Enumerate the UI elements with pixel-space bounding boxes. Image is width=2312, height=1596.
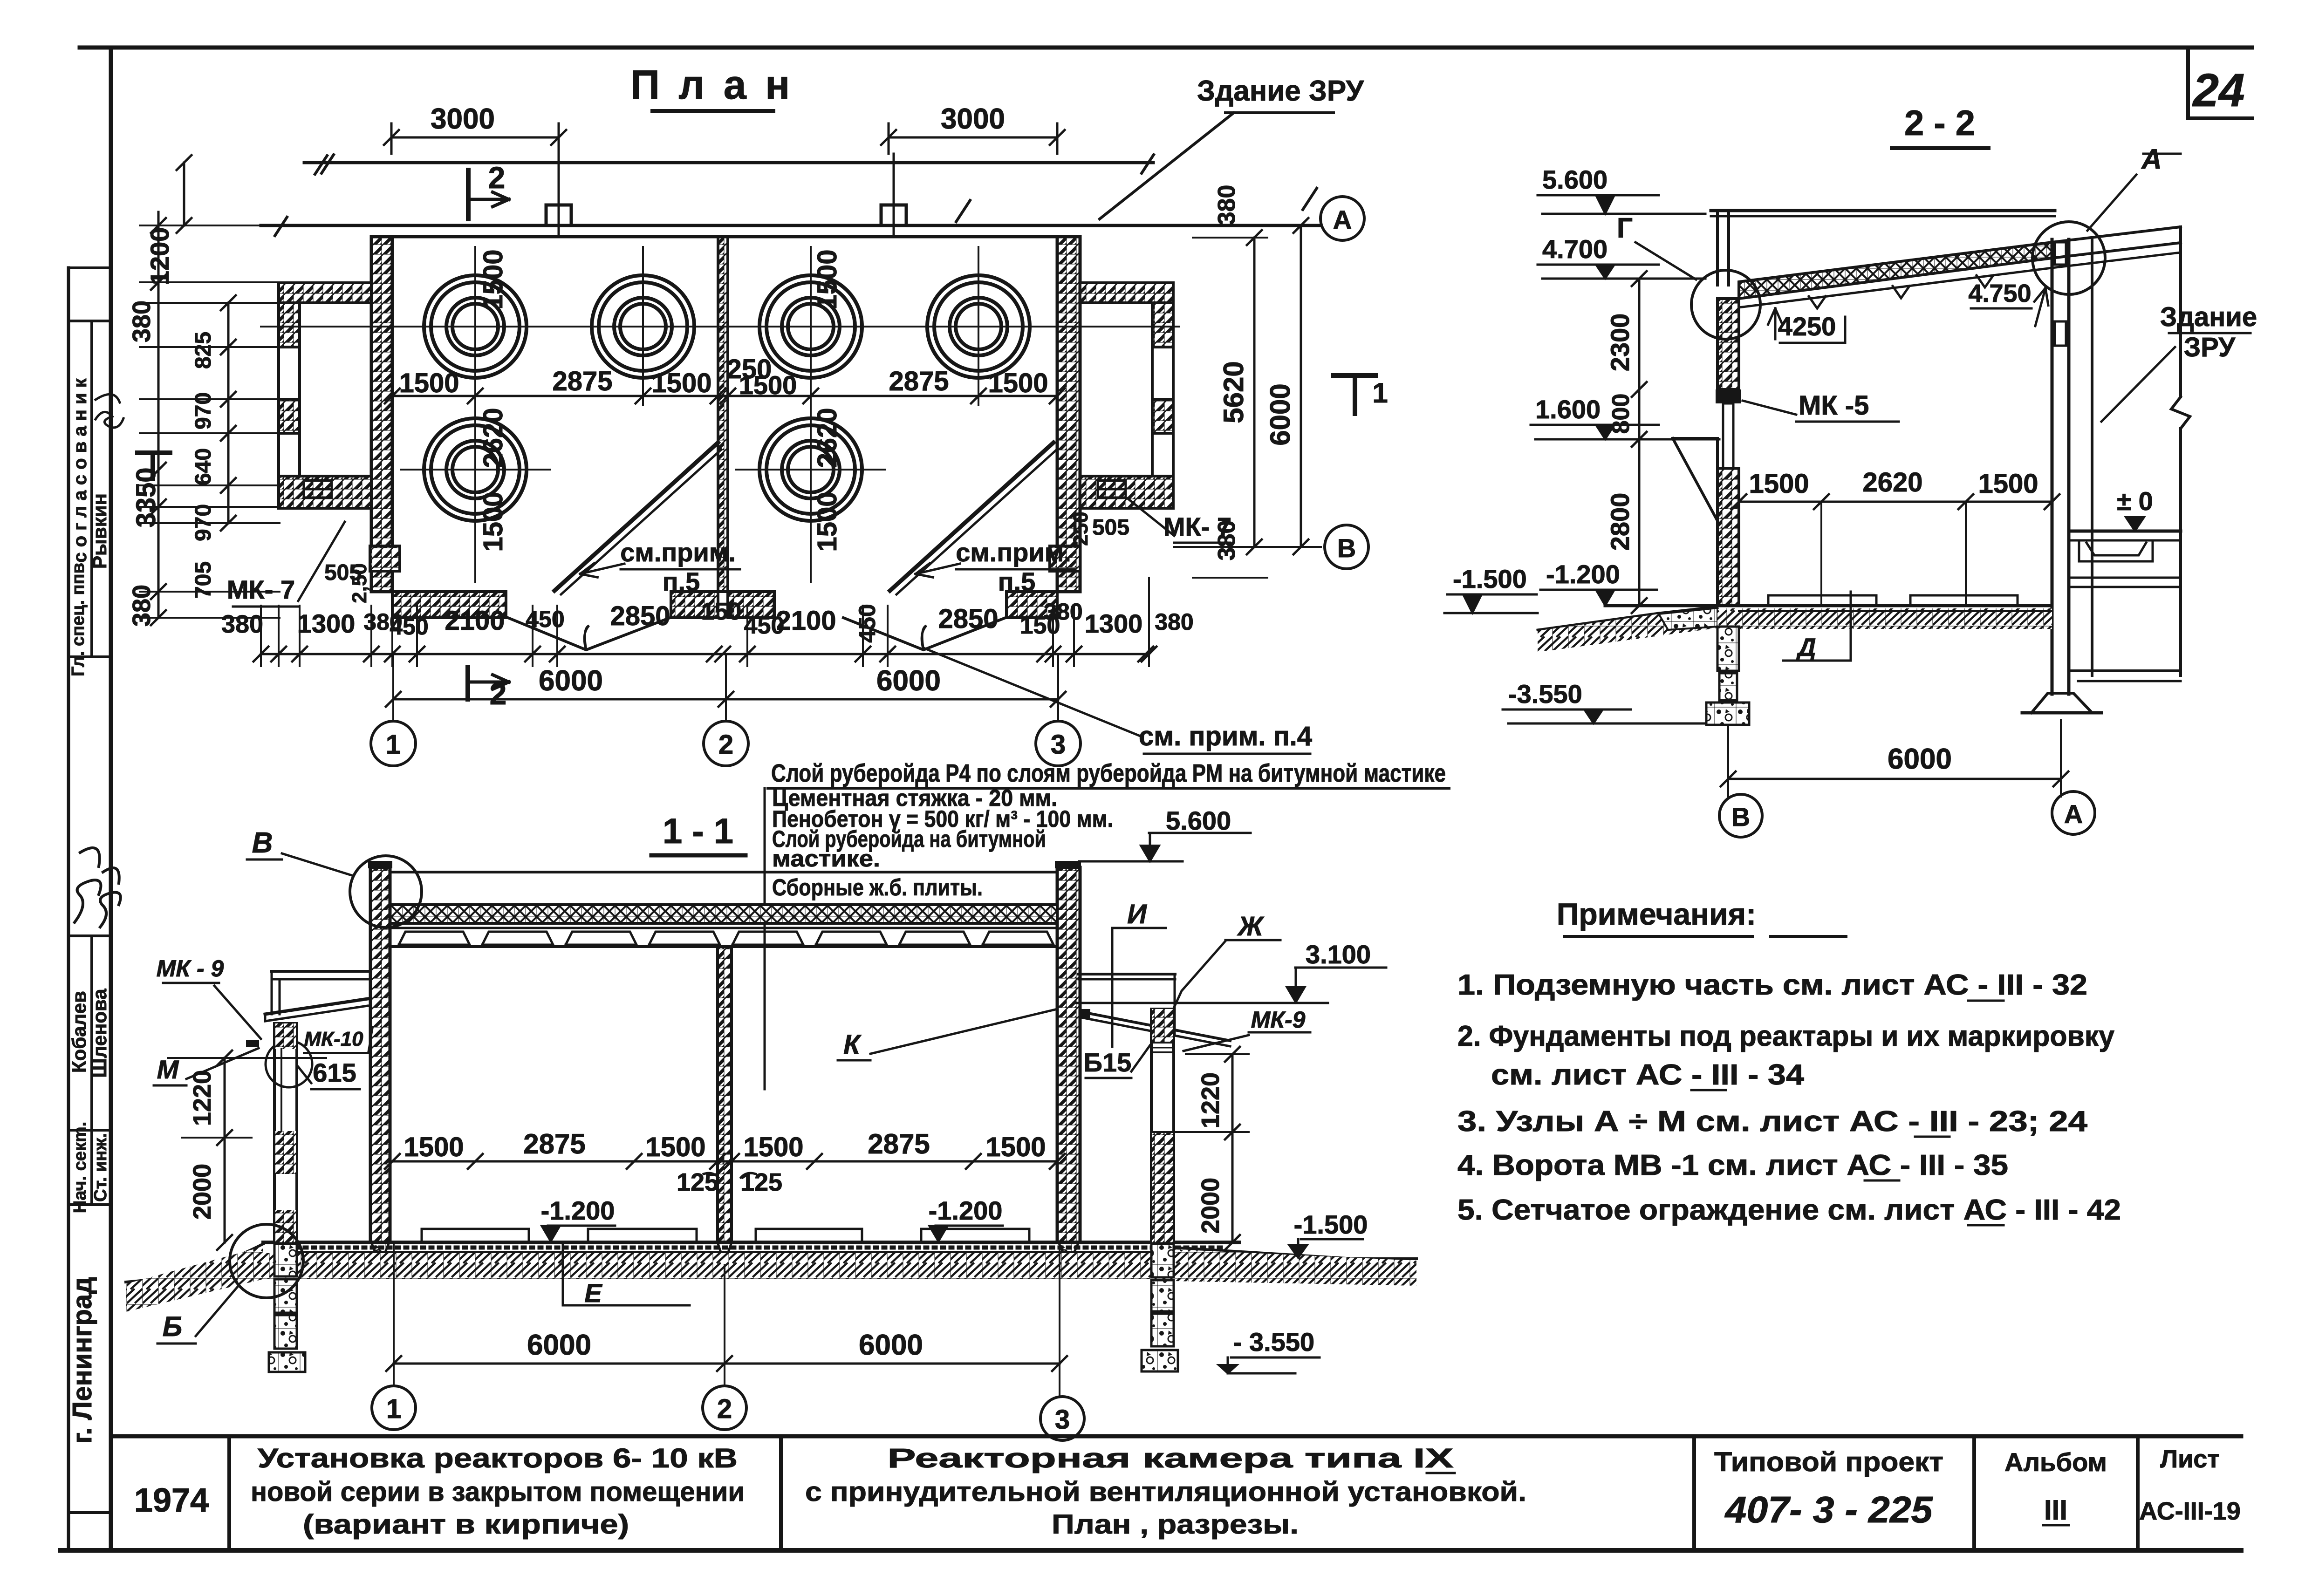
plan reactor circles row1 col3 — [759, 275, 862, 378]
s11 right dim stack 1220 2000 — [1231, 1054, 1234, 1242]
plan left vent room top wall — [279, 283, 371, 303]
svg-text:-1.200: -1.200 — [929, 1196, 1003, 1225]
s11 right column tip — [1059, 1242, 1079, 1265]
s22 wall foundation speckled — [1717, 627, 1739, 671]
signature strip mid divider lower — [90, 936, 93, 1205]
plan reactor circles row1 col1 — [424, 275, 527, 378]
s22 grid bubble B — [1719, 794, 1762, 837]
s22 right column lines — [2051, 239, 2054, 694]
svg-text:1500: 1500 — [812, 249, 842, 309]
svg-text:407- 3 - 225: 407- 3 - 225 — [1724, 1489, 1933, 1530]
s11 grade line left — [126, 1244, 263, 1282]
s11 left canopy sloped slab — [265, 999, 368, 1014]
svg-text:МК -5: МК -5 — [1799, 390, 1869, 421]
svg-text:2620: 2620 — [478, 408, 508, 468]
svg-text:В: В — [1731, 802, 1750, 832]
plan axis bubble A — [1320, 197, 1364, 240]
svg-text:2620: 2620 — [1862, 467, 1922, 498]
s11 right canopy column — [1151, 1009, 1174, 1242]
svg-text:МК - 9: МК - 9 — [157, 955, 224, 982]
svg-text:-3.550: -3.550 — [1508, 679, 1582, 709]
svg-text:5620: 5620 — [1218, 361, 1249, 423]
svg-text:615: 615 — [313, 1058, 356, 1087]
s22 left wall lower hatched — [1717, 468, 1739, 606]
roof text bracket vertical line — [764, 788, 766, 1089]
plan grid bubble 2 — [704, 721, 748, 766]
svg-text:см.прим.: см.прим. — [956, 538, 1071, 567]
svg-text:6000: 6000 — [859, 1329, 923, 1361]
svg-text:План , разрезы.: План , разрезы. — [1052, 1509, 1299, 1540]
svg-text:380: 380 — [221, 610, 263, 638]
s11 ground hatch far left — [126, 1247, 263, 1312]
svg-text:А: А — [2141, 143, 2162, 175]
svg-text:4. Ворота МВ -1 см. лист АС: 4. Ворота МВ -1 см. лист АС - III - 35 — [1457, 1149, 2008, 1181]
s11 left parapet cap — [368, 861, 392, 868]
svg-text:2: 2 — [488, 160, 506, 195]
plan leader Zdanie ZRU — [1100, 113, 1234, 219]
svg-text:п.5: п.5 — [663, 567, 700, 596]
svg-text:1: 1 — [1372, 377, 1388, 409]
s11 right canopy sloped slab MK-9 — [1081, 1012, 1230, 1041]
s11 left dim stack 1220 2000 — [224, 1058, 226, 1242]
s22 ground hatch left of wall — [1538, 607, 1717, 652]
plan reactor circles row2 col3 — [759, 418, 862, 521]
plan right vent room right wall segments — [1152, 303, 1173, 347]
plan vent axis line 2 — [893, 154, 895, 237]
s22 ground hatch under floor — [1717, 608, 2052, 629]
plan right dim 6000 — [1300, 225, 1302, 547]
s11 rear parapet top line — [390, 871, 1057, 873]
s22 left wall upper hatched — [1717, 299, 1739, 389]
svg-text:2000: 2000 — [1197, 1178, 1224, 1234]
svg-text:2,50: 2,50 — [348, 563, 371, 603]
plan gate 1 leaves — [508, 618, 670, 650]
plan bottom wall segment B — [671, 592, 718, 618]
s11 floor line — [263, 1241, 1239, 1244]
svg-text:МК-10: МК-10 — [304, 1028, 363, 1050]
svg-text:Установка реакторов 6- 10 кВ: Установка реакторов 6- 10 кВ — [258, 1443, 738, 1473]
s11 ground hatch under floor — [261, 1253, 1239, 1279]
s22 roof v-notches — [1809, 296, 1826, 308]
plan ZRU wall break marks — [315, 155, 334, 174]
s11 middle column hatched — [718, 947, 732, 1242]
svg-text:505: 505 — [1092, 515, 1129, 540]
plan right section T1 mark — [1334, 373, 1375, 378]
svg-text:Сборные ж.б. плиты.: Сборные ж.б. плиты. — [772, 874, 983, 900]
svg-text:2: 2 — [490, 676, 507, 711]
svg-text:825: 825 — [191, 332, 216, 369]
s11 roof slab line — [390, 927, 1057, 929]
svg-text:1500: 1500 — [404, 1132, 464, 1162]
plan reactor circles row1 col2 — [592, 275, 694, 378]
s11 right canopy beam lines — [1079, 973, 1175, 975]
svg-text:Здание ЗРУ: Здание ЗРУ — [1197, 75, 1364, 107]
plan grid bubble 3 — [1036, 721, 1081, 766]
svg-text:И: И — [1127, 899, 1147, 929]
plan right outer wall hatched — [1057, 237, 1080, 592]
plan centerline horizontal row1 — [261, 326, 1179, 327]
svg-text:3: 3 — [1051, 730, 1066, 760]
svg-text:970: 970 — [191, 504, 216, 541]
svg-text:ЗРУ: ЗРУ — [2184, 332, 2236, 362]
svg-text:1500: 1500 — [988, 368, 1048, 398]
svg-text:1500: 1500 — [478, 249, 508, 309]
plan vent axis line 1 — [558, 154, 560, 237]
s11 right canopy column foundation — [1151, 1244, 1174, 1277]
s11 grade line right — [1174, 1248, 1416, 1259]
svg-text:380: 380 — [1044, 599, 1082, 625]
svg-text:П л а н: П л а н — [630, 61, 794, 108]
plan bottom wall segment A — [392, 592, 506, 618]
svg-text:Д: Д — [1796, 634, 1816, 662]
s22 bottom dim 6000 — [1728, 778, 2061, 780]
plan bottom wall segment C — [728, 592, 774, 618]
s11 right canopy footing pad — [1142, 1350, 1178, 1371]
svg-text:380: 380 — [1213, 520, 1240, 561]
svg-text:5.600: 5.600 — [1166, 806, 1231, 835]
svg-text:1500: 1500 — [739, 370, 797, 400]
s11 left column tip — [371, 1242, 389, 1265]
svg-text:1220: 1220 — [188, 1070, 216, 1126]
svg-text:1500: 1500 — [645, 1132, 705, 1162]
s22 floor line — [1605, 604, 2052, 607]
svg-text:970: 970 — [191, 392, 216, 430]
svg-text:-1.500: -1.500 — [1294, 1210, 1368, 1239]
plan fence diagonal chamber2 — [890, 443, 1053, 591]
sheet bottom frame line — [60, 1548, 2241, 1553]
svg-text:1 - 1: 1 - 1 — [663, 812, 733, 851]
svg-text:800: 800 — [1607, 394, 1635, 434]
svg-text:250: 250 — [1069, 512, 1092, 546]
plan grid dim 6000 line — [393, 698, 1058, 701]
s22 left vertical dim stack — [1638, 279, 1641, 606]
plan section mark 2 top — [466, 170, 471, 219]
svg-text:± 0: ± 0 — [2117, 486, 2153, 516]
svg-text:1500: 1500 — [985, 1132, 1046, 1162]
svg-text:Ст. инж.: Ст. инж. — [91, 1133, 110, 1202]
svg-text:МК- 7: МК- 7 — [227, 575, 295, 604]
plan vent notch 2 — [881, 205, 906, 225]
plan reactor circles row2 col1 — [424, 418, 527, 521]
svg-text:1500: 1500 — [1749, 469, 1809, 499]
signature strip left border — [67, 268, 70, 1550]
plan bottom dim row line — [261, 653, 1149, 655]
sheet top frame line — [80, 46, 2252, 50]
plan left dim stack lines — [157, 212, 160, 618]
svg-text:5.600: 5.600 — [1542, 165, 1607, 194]
plan bottom extension lines — [260, 606, 262, 666]
svg-text:III: III — [2044, 1494, 2067, 1526]
svg-text:2850: 2850 — [610, 601, 670, 631]
plan left extension lines — [140, 225, 280, 226]
svg-text:Гл. спец. ппв: Гл. спец. ппв — [68, 563, 88, 676]
svg-text:новой серии в закрытом помещ: новой серии в закрытом помещении — [251, 1477, 745, 1507]
s11 grid extension lines — [393, 1244, 395, 1386]
s22 right column joint marks — [2055, 242, 2066, 265]
svg-text:1: 1 — [386, 730, 401, 760]
plan chamber dim row texts — [392, 395, 1057, 397]
plan right vent room bottom wall — [1080, 476, 1173, 508]
svg-text:2850: 2850 — [938, 604, 998, 634]
svg-text:2: 2 — [717, 1394, 732, 1424]
svg-text:2. Фундаменты под реактары: 2. Фундаменты под реактары и их маркиров… — [1457, 1020, 2114, 1052]
plan dim 3000 first — [391, 136, 559, 139]
svg-text:5. Сетчатое ограждение см.: 5. Сетчатое ограждение см. лист АС - III… — [1457, 1194, 2121, 1226]
svg-text:1974: 1974 — [134, 1482, 209, 1519]
svg-text:3350: 3350 — [131, 467, 161, 527]
svg-text:1220: 1220 — [1197, 1072, 1224, 1128]
s11 MK-9 plate right — [1079, 1009, 1090, 1018]
svg-text:3000: 3000 — [431, 103, 495, 135]
svg-text:с о г л а с о в а н и к: с о г л а с о в а н и к — [70, 378, 90, 563]
s11 V detail circle top left — [350, 856, 422, 928]
svg-text:2875: 2875 — [523, 1128, 585, 1159]
strip signature squiggle 2 — [75, 848, 101, 922]
s11 interior dim row — [392, 1160, 1057, 1163]
svg-text:Кобалев: Кобалев — [68, 991, 90, 1073]
plan centerline vertical col1 — [474, 247, 476, 582]
plan dim 1200 vertical line — [183, 163, 185, 225]
svg-text:2875: 2875 — [552, 366, 612, 396]
svg-text:1500: 1500 — [651, 368, 711, 398]
svg-text:МК-9: МК-9 — [1251, 1007, 1306, 1033]
svg-text:3. Узлы А ÷ М см. л: 3. Узлы А ÷ М см. лист АС - III - 23; 24 — [1457, 1105, 2088, 1138]
svg-text:-1.200: -1.200 — [1546, 559, 1620, 589]
svg-text:1.600: 1.600 — [1535, 395, 1601, 424]
s22 detail circle A top — [2032, 222, 2105, 294]
title block verticals — [227, 1436, 231, 1550]
svg-text:Типовой проект: Типовой проект — [1714, 1447, 1943, 1477]
svg-text:1500: 1500 — [399, 368, 459, 398]
svg-text:Г: Г — [1617, 212, 1633, 244]
plan centerline vertical col4 — [978, 247, 979, 405]
svg-text:2000: 2000 — [188, 1164, 216, 1220]
svg-text:1500: 1500 — [812, 491, 842, 552]
svg-text:Б: Б — [163, 1311, 182, 1342]
svg-text:1500: 1500 — [478, 491, 508, 552]
svg-text:4.700: 4.700 — [1542, 234, 1607, 264]
s22 ZRU wall line — [2091, 239, 2093, 675]
svg-text:г. Ленинград: г. Ленинград — [67, 1277, 97, 1444]
svg-text:мастике.: мастике. — [772, 846, 880, 872]
s22 MK-5 embed plate — [1716, 389, 1741, 403]
svg-text:2100: 2100 — [776, 606, 836, 636]
s22 footing pad speckled — [1706, 703, 1749, 725]
svg-text:1: 1 — [386, 1394, 401, 1424]
sheet number box 24 — [2186, 48, 2190, 118]
svg-text:с принудительной вентиляцион: с принудительной вентиляционной установк… — [805, 1477, 1526, 1507]
strip signature squiggle 3 — [100, 868, 121, 927]
plan vent notch 1 — [546, 205, 571, 225]
svg-text:1500: 1500 — [743, 1132, 803, 1162]
svg-text:1200: 1200 — [145, 227, 174, 286]
svg-text:2875: 2875 — [868, 1128, 930, 1159]
svg-text:2620: 2620 — [812, 408, 842, 468]
svg-text:380: 380 — [1155, 609, 1193, 635]
plan left vent room bottom wall — [279, 476, 371, 508]
svg-text:Б15: Б15 — [1084, 1048, 1132, 1077]
plan centerline horizontal row2 left — [401, 469, 550, 471]
s11 ground hatch right — [1174, 1249, 1416, 1286]
s22 interior dim row 1500 2620 1500 — [1739, 501, 2052, 503]
s22 column footing flare — [2032, 693, 2092, 713]
plan left wall pilaster foot — [370, 546, 400, 571]
svg-text:380: 380 — [128, 585, 156, 627]
s22 lower slab lines — [2069, 577, 2181, 579]
s11 middle column tip — [718, 1242, 732, 1263]
plan reactor circles row1 col4 — [927, 275, 1030, 378]
s11 right column hatched — [1057, 867, 1080, 1242]
s11 right parapet cap — [1055, 861, 1081, 868]
svg-text:4250: 4250 — [1778, 312, 1836, 341]
s11 left canopy column — [274, 1023, 297, 1242]
s11 grid bubble 1 — [372, 1386, 416, 1430]
s11 left column hatched — [370, 867, 390, 1242]
plan centerline horizontal row2 right — [736, 469, 885, 471]
plan centerline vertical col3 — [810, 247, 812, 582]
svg-text:705: 705 — [191, 561, 216, 599]
svg-text:450: 450 — [854, 604, 880, 642]
plan right dim 5620 — [1253, 238, 1256, 547]
svg-text:А: А — [2064, 799, 2083, 829]
s22 reactor plinths — [1768, 595, 1876, 606]
svg-text:3: 3 — [1055, 1405, 1070, 1435]
s22 louvre triangle bracket — [1673, 438, 1717, 521]
s11 left canopy footing pad — [269, 1352, 305, 1372]
svg-text:Альбом: Альбом — [2004, 1447, 2107, 1477]
svg-text:см. лист АС - III - 34: см. лист АС - III - 34 — [1491, 1059, 1805, 1091]
svg-text:2300: 2300 — [1605, 314, 1635, 372]
s22 roof slab sloped band insulated — [1739, 242, 2052, 299]
svg-text:2 - 2: 2 - 2 — [1904, 103, 1975, 143]
s22 dim 4250 arrow — [1774, 308, 1777, 339]
s11 left canopy column foundation — [274, 1244, 297, 1276]
plan grid bubble 1 — [371, 721, 416, 766]
strip divider ticks — [68, 266, 111, 269]
svg-text:Реакторная камера тип: Реакторная камера типа IX — [888, 1443, 1454, 1473]
s22 cable trench channel — [2079, 543, 2153, 561]
s11 reactor plinths on floor — [422, 1229, 529, 1242]
plan gate 2 leaves — [843, 618, 1006, 650]
s22 roof canopy over ZRU — [2052, 227, 2181, 242]
s11 MK-9 plate left — [246, 1040, 259, 1047]
svg-text:4.750: 4.750 — [1968, 280, 2031, 307]
s11 grid bubble 3 — [1040, 1397, 1084, 1440]
title block top line — [111, 1434, 2241, 1439]
svg-text:380: 380 — [1213, 185, 1240, 225]
s11 grid bubble 2 — [703, 1386, 746, 1430]
plan left section T mark — [137, 450, 170, 455]
plan right vent room top wall — [1080, 283, 1173, 303]
svg-text:А: А — [1333, 205, 1352, 234]
svg-text:1300: 1300 — [297, 609, 356, 638]
s11 left B detail circle — [230, 1224, 303, 1298]
s22 left wall louvre gap — [1723, 403, 1733, 468]
s22 ZRU far edge line with break — [2179, 227, 2182, 397]
svg-text:2800: 2800 — [1605, 493, 1635, 551]
svg-text:6000: 6000 — [527, 1329, 591, 1361]
plan top inner face line — [392, 235, 1057, 239]
svg-text:Здание: Здание — [2160, 302, 2257, 332]
svg-text:6000: 6000 — [1888, 743, 1952, 775]
svg-text:В: В — [252, 827, 273, 859]
svg-text:М: М — [157, 1055, 179, 1084]
plan left vent room left wall segments — [279, 303, 300, 347]
svg-text:150: 150 — [701, 598, 742, 625]
s11 left detail circle small — [266, 1041, 312, 1087]
svg-text:450: 450 — [390, 614, 428, 640]
svg-text:6000: 6000 — [876, 665, 941, 697]
plan ZRU wall axis-A line — [261, 224, 1321, 227]
svg-text:Ж: Ж — [1237, 911, 1265, 941]
plan fence diagonal chamber1 — [554, 443, 718, 591]
plan sm prim p4 label and leader — [925, 648, 1142, 737]
svg-text:(вариант в кирпиче): (вариант в кирпиче) — [303, 1509, 629, 1540]
s11 floor underlay speckle strip — [280, 1246, 1221, 1250]
plan centerline vertical col2 — [642, 247, 644, 405]
svg-text:Нач. секm.: Нач. секm. — [70, 1122, 90, 1213]
svg-text:380: 380 — [128, 300, 156, 342]
svg-text:3000: 3000 — [941, 103, 1005, 135]
plan dim 3000 second — [889, 136, 1057, 139]
sheet left frame line — [109, 48, 113, 1550]
plan left room inner outline — [300, 303, 371, 476]
svg-text:24: 24 — [2192, 64, 2244, 116]
svg-text:В: В — [1337, 533, 1356, 563]
svg-text:К: К — [843, 1030, 862, 1060]
svg-text:3.100: 3.100 — [1306, 940, 1371, 969]
signature strip mid divider upper — [90, 321, 93, 657]
plan left MK-7 bracket detail — [304, 481, 332, 498]
s22 exterior grade slope — [1538, 613, 1659, 630]
svg-text:2100: 2100 — [445, 606, 505, 636]
svg-text:1300: 1300 — [1085, 609, 1143, 638]
s11 ribbed plates row — [399, 932, 470, 945]
svg-text:1. Подземную часть см. лис: 1. Подземную часть см. лист АС - III - 3… — [1457, 969, 2087, 1001]
plan axis bubble B — [1325, 525, 1368, 569]
plan right MK-7 bracket detail — [1098, 481, 1126, 498]
s22 parapet cap line — [1711, 209, 2055, 212]
plan right extension lines — [1193, 237, 1267, 239]
svg-text:-1.200: -1.200 — [541, 1196, 615, 1225]
s22 speckled grade wedge — [1659, 608, 1717, 630]
svg-text:1500: 1500 — [1978, 469, 2038, 499]
s22 node D bracket — [1783, 592, 1851, 661]
s22 grid bubble A — [2052, 791, 2095, 834]
plan ZRU wall outer line — [304, 161, 1153, 164]
s11 roof insulation band — [390, 905, 1057, 923]
svg-text:Слой руберойда Р4 по слоям руб: Слой руберойда Р4 по слоям руберойда РМ … — [771, 759, 1446, 787]
svg-text:Примечания:: Примечания: — [1557, 897, 1756, 931]
svg-text:Рывкин: Рывкин — [89, 493, 110, 569]
svg-text:2: 2 — [718, 730, 733, 760]
plan left outer wall hatched — [371, 237, 392, 592]
strip signature squiggle 1 — [96, 394, 123, 428]
svg-text:п.5: п.5 — [998, 567, 1036, 596]
svg-text:2875: 2875 — [889, 366, 949, 396]
plan right room inner outline — [1080, 303, 1152, 476]
plan middle wall hatched — [718, 237, 728, 592]
plan bottom wall segment D — [1006, 592, 1057, 618]
svg-text:450: 450 — [526, 606, 564, 632]
svg-text:- 3.550: - 3.550 — [1233, 1327, 1314, 1357]
svg-text:Е: Е — [584, 1278, 602, 1308]
svg-text:см. прим. п.4: см. прим. п.4 — [1139, 721, 1312, 751]
svg-text:6000: 6000 — [1265, 383, 1296, 445]
s11 left canopy beam lines — [272, 970, 370, 973]
svg-text:Лист: Лист — [2160, 1445, 2220, 1473]
svg-text:Шленова: Шленова — [89, 989, 110, 1078]
